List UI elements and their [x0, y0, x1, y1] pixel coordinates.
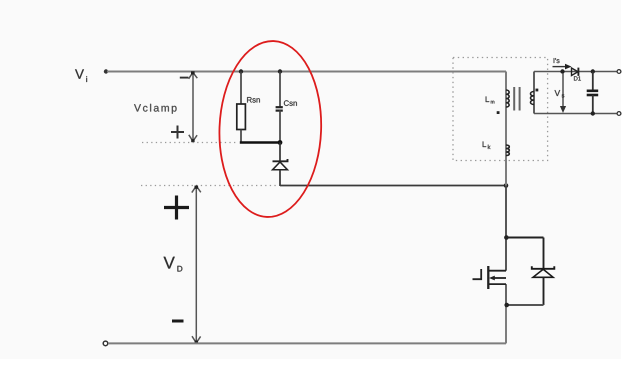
polarity dot secondary: [536, 89, 539, 92]
wire capacitor bottom lead: [279, 110, 281, 142]
body diode triangle: [533, 269, 553, 277]
dotted clamp-level line (left): [142, 142, 237, 144]
wire top rail: [107, 71, 506, 73]
wire diode Dsn cathode lead: [279, 143, 281, 162]
wire output cap bottom lead: [592, 95, 594, 114]
wire secondary bottom rail: [534, 113, 619, 115]
wire output cap top lead: [592, 72, 594, 90]
Vclamp label: [134, 104, 177, 114]
diode D1 cathode bar: [577, 68, 579, 76]
junction dot bar to diode: [278, 140, 283, 145]
transistor Q1 body arrow: [489, 276, 495, 281]
wire resistor top lead: [240, 72, 242, 105]
polarity dot primary: [497, 111, 500, 114]
wire capacitor top lead: [279, 72, 281, 107]
wire diode Dsn anode lead: [279, 170, 281, 186]
capacitor Co plates: [587, 91, 599, 95]
minus sign near top of Vclamp arrow: [180, 77, 189, 79]
junction dot top rail at resistor branch: [239, 69, 243, 73]
junction dot source branch bottom: [504, 303, 509, 308]
red highlight ellipse: [216, 39, 324, 219]
wire body-diode anode lead: [543, 277, 545, 305]
wire secondary top rail: [534, 71, 619, 73]
Vs measurement arrow: [560, 73, 566, 113]
node output terminal plus: [617, 70, 621, 74]
diode Dsn triangle: [273, 162, 288, 170]
Vs label: [555, 90, 565, 97]
inductor Lm winding: [506, 90, 509, 107]
plus sign near bottom of Vclamp arrow: [171, 126, 184, 139]
junction dot drain branch top: [504, 235, 509, 240]
plus sign VD: [164, 196, 189, 220]
capacitor Csn plates: [276, 107, 283, 110]
transformer core lines: [514, 87, 519, 111]
junction dot output cap bottom: [591, 111, 595, 115]
wire branch bottom: [506, 304, 544, 306]
resistor Rsn label: [247, 97, 260, 102]
wire resistor bottom lead: [240, 130, 242, 143]
node output terminal minus: [617, 112, 621, 116]
current I's arrow: [553, 64, 572, 70]
node bottom-left terminal: [103, 341, 108, 346]
wire primary vertical (top rail to MOSFET drain): [505, 72, 507, 186]
wire snubber bottom bar: [240, 141, 281, 144]
node Vi label: [75, 69, 87, 82]
wire bottom rail: [108, 342, 506, 344]
VD label: [164, 257, 183, 272]
current I's label: [554, 58, 560, 63]
Vclamp measurement arrow: [189, 72, 198, 141]
wire source vertical (MOSFET source to bottom rail): [505, 284, 507, 305]
junction dot Vs tap: [560, 69, 564, 73]
wire branch top: [506, 237, 544, 239]
wire body-diode cathode lead: [543, 238, 545, 269]
diode Dsn cathode bar: [273, 159, 288, 161]
body diode cathode bar: [532, 266, 555, 269]
inductor Lk label: [483, 142, 491, 150]
capacitor Csn label: [284, 100, 297, 106]
transformer dotted box: [453, 58, 548, 161]
resistor Rsn body: [237, 104, 246, 130]
diode D1 label: [574, 76, 581, 80]
minus sign VD: [172, 320, 184, 323]
transistor Q1 MOSFET: [473, 266, 507, 289]
junction dot output cap top: [591, 69, 595, 73]
diode D1 triangle: [572, 68, 579, 76]
junction dot switch node: [504, 183, 509, 188]
node input terminal top-left: [104, 69, 108, 73]
inductor Lk winding: [506, 145, 509, 156]
dotted switch-node level line (left): [141, 185, 277, 187]
wire clamp to switch node: [280, 185, 506, 187]
secondary winding: [533, 72, 535, 114]
junction dot top rail at capacitor branch: [278, 69, 282, 73]
VD measurement arrow: [192, 186, 201, 343]
inductor Lm label: [486, 97, 495, 104]
